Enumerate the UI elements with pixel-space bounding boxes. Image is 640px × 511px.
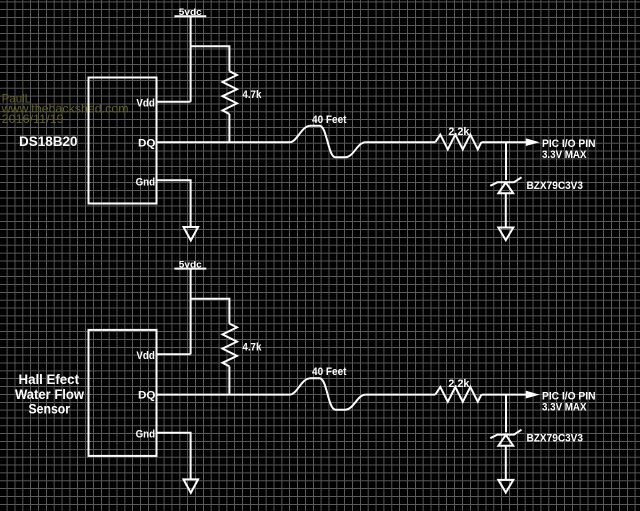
wire zener D1 to ground (top): [505, 193, 507, 227]
label 3.3V MAX (bottom): [542, 402, 587, 414]
svg-text:Gnd: Gnd: [136, 176, 156, 188]
pin label Gnd (U1): [136, 176, 156, 188]
pin label Gnd (U2): [136, 429, 156, 441]
power rail 5VDC (bottom) label: [179, 259, 202, 269]
label 3.3V MAX (top): [542, 149, 587, 161]
pin label DQ (U2): [138, 390, 156, 402]
label PIC I/O PIN (bottom): [542, 391, 596, 403]
cable squiggle 40 Feet (top): [290, 126, 366, 158]
output arrow to PIC pin (bottom): [526, 391, 538, 397]
ground symbol below zener D2 (bottom): [498, 480, 513, 493]
resistor R4 value label 2.2k: [448, 378, 470, 390]
svg-text:2.2k: 2.2k: [448, 378, 470, 390]
wire Gnd pin to ground (bottom): [157, 433, 191, 479]
svg-text:4.7k: 4.7k: [242, 89, 262, 101]
wire zener D2 to ground (bottom): [505, 446, 507, 480]
IC U2 Hall Effect sensor body: [89, 330, 157, 456]
zener diode D1 label BZX79C3V3 (top): [527, 180, 584, 192]
ground symbol below U1 Gnd (top): [184, 227, 199, 241]
wire branch to pull-up resistor (top): [191, 46, 230, 71]
cable squiggle 40 Feet (bottom): [290, 378, 366, 410]
wire resistor R1 bottom to DQ line (top): [228, 114, 230, 142]
svg-text:BZX79C3V3: BZX79C3V3: [527, 432, 584, 444]
zener diode D2 cathode bar (bottom): [490, 430, 521, 439]
wire squiggle to resistor R2 (top): [366, 141, 436, 143]
svg-text:40 Feet: 40 Feet: [312, 366, 347, 378]
svg-text:2.2k: 2.2k: [448, 126, 470, 138]
svg-text:4.7k: 4.7k: [242, 341, 262, 353]
svg-text:Hall Efect: Hall Efect: [19, 371, 80, 387]
svg-text:3.3V MAX: 3.3V MAX: [542, 402, 587, 414]
wire resistor R4 to output arrow (bottom): [481, 394, 527, 396]
resistor R4 2.2k (bottom series): [435, 387, 481, 402]
svg-text:Vdd: Vdd: [136, 350, 155, 362]
svg-text:3.3V MAX: 3.3V MAX: [542, 149, 587, 161]
zener diode D1 cathode bar (top): [490, 177, 521, 186]
wire DQ pin to cable squiggle (top): [157, 141, 290, 143]
svg-text:DS18B20: DS18B20: [19, 133, 78, 149]
wire Vdd pin to 5vdc vertical (bottom): [157, 353, 191, 355]
resistor R1 value label 4.7k: [242, 89, 262, 101]
svg-text:Water Flow: Water Flow: [15, 386, 84, 402]
watermark www.thebackshed.com: [1, 102, 129, 116]
IC U2 label Water Flow: [15, 386, 84, 402]
wire 5vdc rail to Vdd pin (bottom): [190, 269, 192, 355]
wire junction down to zener D1 (top): [505, 142, 507, 180]
svg-text:2016/11/19: 2016/11/19: [2, 112, 64, 126]
resistor R2 value label 2.2k: [448, 126, 470, 138]
svg-text:DQ: DQ: [138, 390, 156, 402]
wire DQ pin to cable squiggle (bottom): [157, 394, 290, 396]
wire Vdd pin to 5vdc vertical (top): [157, 101, 191, 103]
svg-text:Gnd: Gnd: [136, 429, 156, 441]
wire squiggle to resistor R4 (bottom): [366, 394, 436, 396]
resistor R1 4.7k (top pull-up): [223, 71, 238, 114]
resistor R3 4.7k (bottom pull-up): [223, 324, 238, 367]
svg-text:40 Feet: 40 Feet: [312, 114, 347, 126]
ground symbol below zener D1 (top): [498, 228, 513, 241]
pin label Vdd (U2): [136, 350, 155, 362]
svg-text:DQ: DQ: [138, 137, 156, 149]
output arrow to PIC pin (top): [526, 139, 538, 145]
IC U2 label Sensor: [29, 401, 71, 417]
IC U1 DS18B20 body: [89, 78, 157, 204]
svg-text:Vdd: Vdd: [136, 98, 155, 110]
zener diode D2 label BZX79C3V3 (bottom): [527, 432, 584, 444]
power rail 5VDC (bottom) bar: [174, 268, 206, 270]
wire resistor R2 to output arrow (top): [481, 141, 527, 143]
IC U1 label DS18B20: [19, 133, 78, 149]
IC U2 label Hall Efect: [19, 371, 80, 387]
pin label DQ (U1): [138, 137, 156, 149]
svg-text:BZX79C3V3: BZX79C3V3: [527, 180, 584, 192]
power rail 5VDC (top) label: [179, 7, 202, 17]
resistor R3 value label 4.7k: [242, 341, 262, 353]
watermark 2016/11/19: [2, 112, 64, 126]
wire resistor R3 bottom to DQ line (bottom): [228, 366, 230, 394]
zener diode D2 anode triangle (bottom): [498, 435, 513, 446]
wire branch to pull-up resistor (bottom): [191, 299, 230, 324]
ground symbol below U2 Gnd (bottom): [184, 479, 199, 493]
wire Gnd pin to ground (top): [157, 180, 191, 226]
label 40 Feet (bottom): [312, 366, 347, 378]
watermark PaulL: [2, 91, 32, 105]
label 40 Feet (top): [312, 114, 347, 126]
zener diode D1 anode triangle (top): [498, 183, 513, 194]
wire junction down to zener D2 (bottom): [505, 395, 507, 433]
power rail 5VDC (top) bar: [174, 15, 206, 17]
pin label Vdd (U1): [136, 98, 155, 110]
resistor R2 2.2k (top series): [435, 135, 481, 150]
wire 5vdc rail to Vdd pin (top): [190, 16, 192, 102]
label PIC I/O PIN (top): [542, 138, 596, 150]
svg-text:Sensor: Sensor: [29, 401, 71, 417]
